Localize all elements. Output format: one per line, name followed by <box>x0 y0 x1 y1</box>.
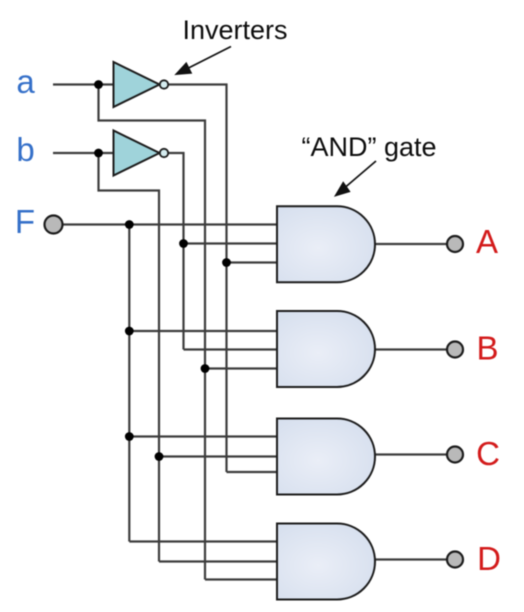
wire F to gate C input 1 <box>129 435 277 437</box>
wire a elbow to gate D input 3 <box>205 578 277 580</box>
junction b to gate C input 2 <box>155 452 164 461</box>
svg-text:b: b <box>16 131 34 168</box>
AND gate A <box>277 206 375 282</box>
wire F to gate A input 1 <box>63 223 278 225</box>
svg-text:Inverters: Inverters <box>182 15 287 45</box>
wire a jog down and right <box>99 85 206 580</box>
svg-text:B: B <box>476 330 498 367</box>
terminal F <box>45 216 63 234</box>
svg-text:a: a <box>16 63 35 100</box>
wire F vertical rail <box>128 225 130 542</box>
wire a-prime to gate A input 3 <box>227 261 278 263</box>
wire inverter a output to corner <box>168 85 226 473</box>
wire gate D output <box>375 558 447 560</box>
junction on a input <box>94 80 103 89</box>
wire input b <box>53 152 114 154</box>
junction F to gate B input 1 <box>125 327 134 336</box>
svg-text:C: C <box>476 435 500 472</box>
terminal A <box>447 236 463 252</box>
terminal C <box>447 447 463 463</box>
wire gate C output <box>375 453 447 455</box>
svg-text:D: D <box>477 540 501 577</box>
svg-text:“AND” gate: “AND” gate <box>301 132 436 162</box>
wire b to gate C input 2 <box>159 455 277 457</box>
wire F to gate B input 1 <box>129 330 277 332</box>
svg-text:A: A <box>476 223 498 260</box>
AND gate D <box>277 524 375 600</box>
wire gate A output <box>375 243 447 245</box>
inverter U1 <box>114 62 169 107</box>
wire b elbow to gate D input 2 <box>159 560 277 562</box>
wire inverter b output to corner <box>168 153 183 350</box>
junction on F at rail <box>125 220 134 229</box>
junction F to gate C input 1 <box>125 432 134 441</box>
arrow to inverters <box>176 47 232 75</box>
wire b-prime to gate A input 2 <box>184 242 278 244</box>
inverter U2 <box>114 131 169 176</box>
junction on b input <box>94 149 103 158</box>
AND gate C <box>277 419 375 495</box>
wire b-prime elbow to gate B input 2 <box>184 348 278 350</box>
wire b jog down and right <box>99 153 160 562</box>
wire a-prime elbow to gate C input 3 <box>227 471 278 473</box>
wire input a <box>53 83 114 85</box>
terminal B <box>447 342 463 358</box>
svg-text:F: F <box>15 203 35 240</box>
AND gate B <box>277 311 375 387</box>
arrow to AND gate <box>335 161 376 196</box>
wire gate B output <box>375 348 447 350</box>
wire a to gate B input 3 <box>205 367 277 369</box>
junction a-prime to gate A input 3 <box>222 258 231 267</box>
junction a to gate B input 3 <box>201 364 210 373</box>
junction b-prime to gate A input 2 <box>179 239 188 248</box>
terminal D <box>447 552 463 568</box>
wire F elbow to gate D input 1 <box>129 540 277 542</box>
